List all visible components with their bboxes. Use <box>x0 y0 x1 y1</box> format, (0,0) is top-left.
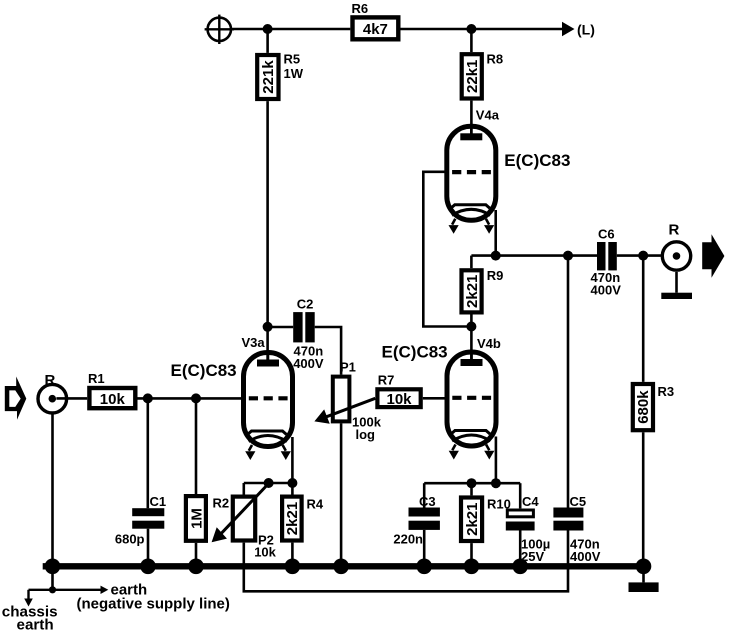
triode V4b <box>382 336 501 460</box>
capacitor C1 <box>115 398 166 563</box>
node junction R9 bottom / V4b anode <box>466 322 476 332</box>
svg-text:680p: 680p <box>115 532 145 547</box>
output arrow <box>702 234 724 278</box>
node junction C1 tap <box>143 393 153 403</box>
resistor R10 <box>461 483 511 563</box>
chassis earth arrow <box>24 590 52 607</box>
(L) output arrow <box>562 22 595 38</box>
svg-text:V4a: V4a <box>476 108 500 123</box>
wire C6 to output socket <box>617 254 661 257</box>
svg-text:2k21: 2k21 <box>284 502 301 535</box>
wire cathode node V3a <box>244 482 293 485</box>
resistor R6 <box>352 1 399 39</box>
potentiometer P1 <box>317 360 381 564</box>
svg-text:V4b: V4b <box>477 336 501 351</box>
svg-text:1W: 1W <box>284 66 304 81</box>
svg-text:E(C)C83: E(C)C83 <box>504 151 570 170</box>
svg-text:R3: R3 <box>658 384 675 399</box>
resistor R9 <box>462 256 504 327</box>
potentiometer P2 <box>214 483 277 560</box>
resistor R8 <box>462 29 503 99</box>
node junction at C2 tap <box>263 322 273 332</box>
svg-text:R9: R9 <box>487 268 504 283</box>
node junction bus P1 <box>333 559 349 575</box>
wire V4a cathode lead <box>494 210 497 256</box>
node junction V4b cathode <box>491 478 501 488</box>
wire P2 bottom feedback line to C5 <box>244 531 568 592</box>
wire C2 to P1 top <box>315 327 341 375</box>
svg-text:C3: C3 <box>419 494 436 509</box>
resistor R4 <box>282 483 324 563</box>
capacitor C5 <box>553 256 600 564</box>
node junction R3 top <box>638 251 648 261</box>
wire socket to R1 <box>56 397 87 400</box>
svg-text:R4: R4 <box>307 497 324 512</box>
earth bus <box>43 563 644 569</box>
chassis ground right <box>629 566 659 592</box>
node junction at R8 top <box>466 24 476 34</box>
capacitor C2 <box>268 297 324 372</box>
svg-text:R7: R7 <box>378 373 395 388</box>
node junction R10 top <box>467 478 477 488</box>
svg-text:10k: 10k <box>100 391 126 408</box>
svg-text:400V: 400V <box>591 283 622 298</box>
svg-text:log: log <box>356 427 376 442</box>
svg-text:1M: 1M <box>188 508 205 529</box>
node junction bus R3 <box>636 559 652 575</box>
label chassis earth <box>2 604 58 634</box>
node junction earth tap <box>49 586 56 593</box>
capacitor C4 <box>506 483 550 564</box>
svg-text:R8: R8 <box>487 52 504 67</box>
svg-text:C5: C5 <box>570 494 587 509</box>
svg-text:V3a: V3a <box>242 335 266 350</box>
svg-text:E(C)C83: E(C)C83 <box>171 361 237 380</box>
svg-text:(negative supply line): (negative supply line) <box>77 596 230 613</box>
capacitor C3 <box>393 483 440 563</box>
svg-text:400V: 400V <box>293 356 324 371</box>
svg-text:2k21: 2k21 <box>464 503 481 536</box>
wire R9 bottom to V4b anode <box>470 327 473 364</box>
svg-text:C2: C2 <box>297 297 314 312</box>
wire R1 to V3a grid <box>138 397 244 400</box>
svg-text:22k1: 22k1 <box>464 60 481 93</box>
wire V4a grid feedback to R9 bottom <box>423 172 467 327</box>
svg-text:P1: P1 <box>340 360 356 375</box>
node junction bus C1 <box>140 559 156 575</box>
svg-text:221k: 221k <box>260 60 277 94</box>
node junction bus C3 <box>416 559 432 575</box>
node junction at R5 top <box>263 24 273 34</box>
supply terminal + <box>205 15 234 44</box>
resistor R3 <box>633 256 674 566</box>
svg-text:4k7: 4k7 <box>363 21 388 38</box>
svg-text:220n: 220n <box>393 532 423 547</box>
svg-text:R6: R6 <box>352 1 369 16</box>
earth arrow <box>53 586 109 594</box>
svg-text:R5: R5 <box>284 52 301 67</box>
node junction R4 top <box>287 478 297 488</box>
svg-text:R1: R1 <box>88 371 105 386</box>
output socket R <box>661 222 692 300</box>
input arrow <box>5 377 27 420</box>
input socket R <box>38 372 67 413</box>
node junction C5 tap <box>563 251 573 261</box>
wire cathode node V4b <box>424 482 520 485</box>
node junction bus R4 <box>285 559 301 575</box>
svg-text:10k: 10k <box>386 391 412 408</box>
resistor R2 <box>186 398 229 563</box>
wire R8 to V4a anode <box>470 101 473 136</box>
capacitor C6 <box>591 227 622 298</box>
wire output node to C6 <box>471 254 597 257</box>
wire supply to R6 <box>231 28 350 31</box>
svg-text:earth: earth <box>17 617 54 634</box>
wire R5 to V3a anode <box>266 101 269 362</box>
svg-text:680k: 680k <box>635 390 652 424</box>
svg-text:C1: C1 <box>150 494 167 509</box>
triode V4a <box>447 108 571 234</box>
svg-text:C6: C6 <box>598 227 615 242</box>
wire V4b cathode lead <box>495 437 498 484</box>
node junction bus C4 <box>512 559 528 575</box>
triode V3a <box>171 335 293 460</box>
svg-text:2k21: 2k21 <box>464 275 481 308</box>
svg-text:(L): (L) <box>577 22 595 38</box>
node junction bus R10 <box>464 559 480 575</box>
resistor R1 <box>88 371 135 408</box>
resistor R7 <box>377 373 446 408</box>
wire R6 to (L) <box>401 28 563 31</box>
svg-text:E(C)C83: E(C)C83 <box>382 343 448 362</box>
resistor R5 <box>257 29 304 99</box>
wire V3a cathode lead <box>291 437 294 483</box>
wire input socket to bus <box>51 413 54 590</box>
node junction P2 wiper <box>264 478 274 488</box>
svg-text:10k: 10k <box>254 545 276 560</box>
svg-text:400V: 400V <box>570 549 601 564</box>
svg-text:R2: R2 <box>213 496 230 511</box>
node junction bus R2 <box>188 559 204 575</box>
node junction bus input <box>45 559 61 575</box>
svg-text:C4: C4 <box>522 494 539 509</box>
svg-text:R: R <box>669 222 680 239</box>
node junction R2 tap <box>191 393 201 403</box>
node junction V4a cathode <box>491 251 501 261</box>
